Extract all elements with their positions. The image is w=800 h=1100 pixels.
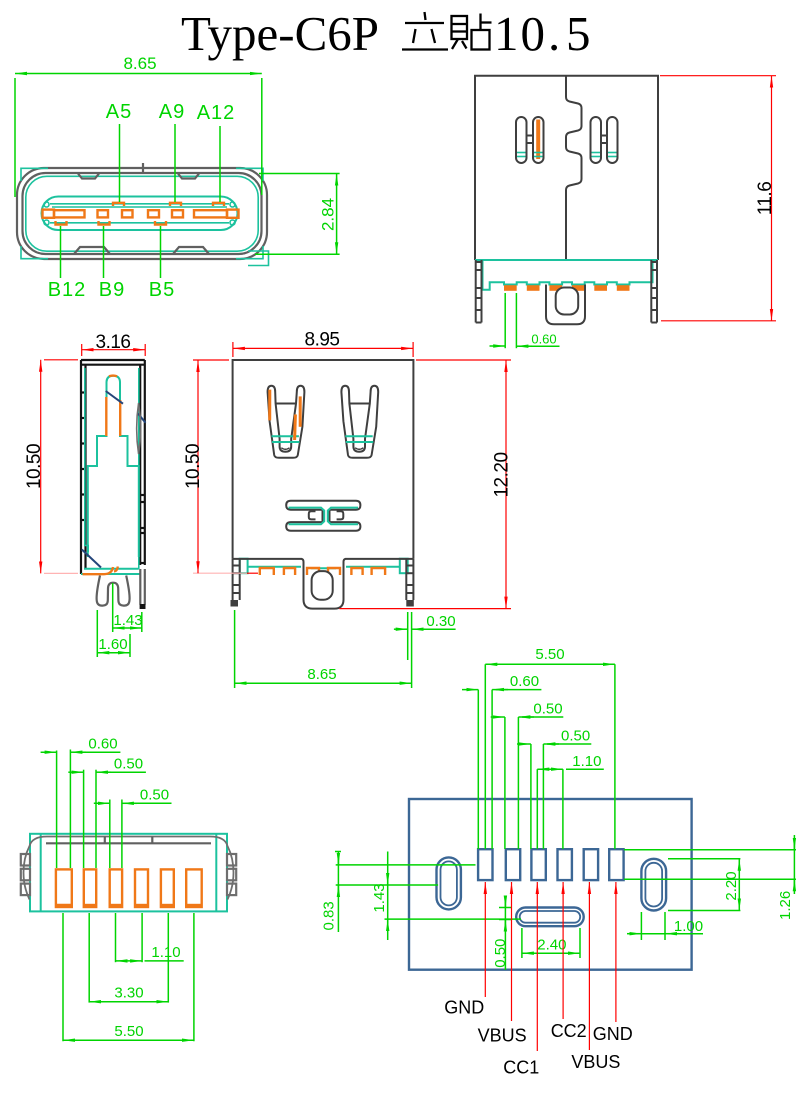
label A9 leader bbox=[174, 124, 176, 202]
dimension 0.83 bbox=[337, 852, 339, 933]
title CJK 贴 bbox=[452, 14, 492, 50]
footprint right extension lines bbox=[624, 849, 796, 851]
bottom tab B12 bbox=[56, 221, 67, 225]
footprint dim extension verticals top bbox=[477, 690, 479, 849]
svg-text:1.10: 1.10 bbox=[572, 753, 601, 770]
dimension 1.26 bbox=[793, 835, 795, 894]
dimension 10.50 side bbox=[44, 359, 78, 361]
pad leader CC1 bbox=[536, 882, 538, 1051]
dimension 0.50 bottom view first bbox=[68, 771, 83, 773]
svg-text:0.50: 0.50 bbox=[533, 700, 562, 717]
bottom view shell teal outline bbox=[30, 834, 227, 912]
dimension 1.43 footprint bbox=[387, 852, 389, 941]
svg-text:CC2: CC2 bbox=[551, 1021, 587, 1041]
front view corner mark bottom-right bbox=[236, 246, 263, 259]
bottom dim extension lines below pads bbox=[62, 913, 64, 1041]
dimension 2.84 height bbox=[259, 173, 340, 175]
front view tongue bbox=[42, 197, 238, 231]
front view top edge notch left bbox=[78, 174, 99, 179]
bottom tab B9 bbox=[99, 221, 110, 225]
elevation center tab hole bbox=[312, 571, 333, 600]
svg-text:5.50: 5.50 bbox=[535, 646, 564, 663]
rear left leg bbox=[476, 260, 482, 323]
svg-text:0.60: 0.60 bbox=[88, 736, 117, 753]
svg-text:0.60: 0.60 bbox=[510, 673, 539, 690]
svg-text:0.50: 0.50 bbox=[561, 727, 590, 744]
front view bottom edge notch left bbox=[74, 247, 110, 254]
svg-text:10.50: 10.50 bbox=[24, 444, 45, 489]
side view inner teal liner left bbox=[85, 368, 88, 552]
pin contact small 4 bbox=[172, 210, 183, 217]
rear center tab outline bbox=[546, 285, 585, 325]
svg-text:3.30: 3.30 bbox=[114, 985, 143, 1002]
rear latch hole left slot 2 bbox=[533, 117, 544, 163]
dimension 1.00 bbox=[640, 912, 642, 940]
dimension 0.30 bbox=[407, 612, 409, 660]
svg-text:10: 10 bbox=[494, 6, 547, 61]
rear latch right teal marks bbox=[592, 152, 601, 154]
rear latch hole left slot 1 bbox=[516, 117, 527, 163]
footprint board outline bbox=[409, 799, 692, 970]
dimension 0.50 footprint first bbox=[491, 716, 505, 718]
dimension 8.95 bbox=[232, 342, 234, 357]
side view left edge ticks bbox=[81, 391, 86, 393]
front view corner mark top-left bbox=[21, 168, 48, 181]
dimension 0.60 rear pad bbox=[504, 293, 506, 348]
dimension 3.16 bbox=[81, 344, 83, 356]
pin long contact right bbox=[194, 210, 227, 217]
label A12 leader bbox=[219, 126, 221, 202]
front view top edge notch right bbox=[178, 174, 199, 179]
svg-text:2.84: 2.84 bbox=[319, 198, 338, 231]
dimension 5.50 bottom view bbox=[63, 1039, 194, 1041]
top tab A12 bbox=[213, 203, 224, 206]
svg-text:.: . bbox=[548, 6, 560, 61]
svg-text:12.20: 12.20 bbox=[492, 452, 513, 497]
label A5 leader bbox=[119, 124, 121, 202]
footprint center oblong hole bbox=[516, 908, 584, 927]
rear center tab hole bbox=[556, 288, 579, 315]
pin B12/A12 long contact left bbox=[54, 210, 85, 217]
footprint left oblong hole bbox=[437, 857, 461, 909]
side view solder fork legs bbox=[97, 576, 130, 606]
svg-text:0.83: 0.83 bbox=[321, 901, 338, 930]
footprint right oblong hole bbox=[641, 859, 666, 911]
pad leader VBUS 2 bbox=[588, 882, 590, 1050]
elevation I-beam teal inset bbox=[289, 508, 359, 525]
title CJK 立 bbox=[402, 12, 448, 50]
dimension 1.10 footprint bbox=[537, 768, 563, 770]
elevation body outline bbox=[233, 360, 414, 559]
footprint left extension lines bbox=[335, 851, 341, 853]
svg-text:1.00: 1.00 bbox=[674, 918, 703, 935]
elevation I-beam cutout bbox=[286, 501, 360, 531]
svg-text:VBUS: VBUS bbox=[478, 1026, 527, 1046]
label B5 leader bbox=[160, 226, 162, 278]
side view bottom teal lines bbox=[84, 568, 139, 570]
rear view center seam bbox=[566, 76, 582, 260]
svg-text:0.30: 0.30 bbox=[426, 613, 455, 630]
rear latch hole right slot 1 bbox=[591, 117, 602, 163]
elevation orange pad brackets bbox=[260, 568, 274, 575]
svg-text:2.20: 2.20 bbox=[723, 871, 740, 900]
footprint pads bbox=[478, 849, 492, 880]
dimension 0.60 bottom view bbox=[41, 751, 57, 753]
svg-text:8.65: 8.65 bbox=[307, 666, 336, 683]
pad leader GND 2 bbox=[615, 882, 617, 1022]
side view tongue profile teal bbox=[88, 376, 139, 557]
front view bottom edge notch right bbox=[173, 247, 209, 254]
svg-text:A5: A5 bbox=[106, 101, 132, 123]
side view orange hook bottom bbox=[83, 567, 114, 574]
svg-text:5: 5 bbox=[566, 6, 591, 61]
extension line pink bottom bbox=[193, 572, 247, 574]
svg-text:B5: B5 bbox=[149, 279, 175, 301]
svg-text:GND: GND bbox=[593, 1024, 633, 1044]
elevation teal bottom line bbox=[248, 566, 301, 568]
svg-text:1.10: 1.10 bbox=[151, 944, 180, 961]
rear view body outline bbox=[475, 76, 658, 260]
front view shell inner teal liner bbox=[26, 176, 258, 251]
bottom view right cap lugs bbox=[227, 854, 236, 866]
pad leader GND 1 bbox=[484, 882, 486, 997]
svg-text:8.95: 8.95 bbox=[305, 330, 340, 351]
bottom tab B5 bbox=[155, 221, 166, 225]
dimension 2.20 bbox=[738, 859, 740, 911]
elevation shell bottom edge and center tab outline bbox=[233, 559, 414, 609]
elevation left leg bbox=[233, 559, 240, 600]
dimension 1.43 fork bbox=[112, 583, 114, 632]
svg-text:Type-C6P: Type-C6P bbox=[181, 6, 379, 61]
pin contact small 2 bbox=[122, 210, 133, 217]
dimension 12.20 bbox=[416, 359, 511, 361]
svg-text:0.50: 0.50 bbox=[492, 939, 509, 968]
top tab A5 bbox=[113, 203, 124, 206]
dimension 1.10 bbox=[116, 960, 143, 962]
side view right edge ticks bbox=[140, 494, 145, 496]
bottom view left cap lugs bbox=[21, 854, 30, 866]
label B12 leader bbox=[60, 226, 62, 278]
side view body outline bbox=[81, 360, 145, 574]
elevation teal corner blocks bbox=[240, 559, 248, 574]
side view inner teal liner right bbox=[138, 368, 140, 569]
svg-text:A9: A9 bbox=[159, 101, 185, 123]
front view outer shell bbox=[17, 168, 267, 259]
bottom view solder pads bbox=[56, 869, 72, 907]
svg-text:1.60: 1.60 bbox=[98, 636, 127, 653]
svg-text:1.26: 1.26 bbox=[777, 891, 794, 920]
svg-text:3.16: 3.16 bbox=[96, 332, 131, 353]
rear latch left crossbar bbox=[527, 135, 534, 137]
dimension 0.50 footprint second bbox=[517, 743, 531, 745]
elevation right leg bbox=[406, 559, 413, 600]
svg-text:B12: B12 bbox=[48, 279, 87, 301]
rear latch left orange contact bbox=[536, 120, 540, 160]
rear right leg bbox=[651, 260, 657, 323]
svg-text:GND: GND bbox=[444, 997, 484, 1017]
label B9 leader bbox=[103, 226, 105, 278]
svg-text:1.43: 1.43 bbox=[371, 883, 388, 912]
svg-text:5.50: 5.50 bbox=[114, 1023, 143, 1040]
elevation I-beam side hooks bbox=[309, 511, 316, 519]
svg-text:CC1: CC1 bbox=[503, 1058, 539, 1078]
svg-text:10.50: 10.50 bbox=[183, 444, 204, 489]
dimension 2.40 bbox=[521, 928, 523, 958]
svg-text:2.40: 2.40 bbox=[537, 937, 566, 954]
dimension 0.60 footprint bbox=[462, 689, 478, 691]
front view corner mark top-right bbox=[236, 168, 263, 181]
dimension 11.6 overall height bbox=[660, 75, 776, 77]
svg-text:0.50: 0.50 bbox=[114, 756, 143, 773]
svg-text:0.60: 0.60 bbox=[531, 332, 556, 347]
rear solder pads orange bbox=[504, 285, 517, 291]
elevation latch fork cutout right bbox=[341, 386, 378, 458]
svg-text:8.65: 8.65 bbox=[123, 54, 156, 73]
dimension 0.50 footprint vertical bbox=[504, 898, 506, 970]
side view orange contact tip bbox=[109, 374, 117, 377]
bottom view top band and caps gray bbox=[24, 837, 234, 900]
pin row: right shield tab bbox=[227, 210, 239, 218]
pin row: left shield tab bbox=[43, 210, 55, 218]
dimension 0.50 bottom view second bbox=[94, 802, 110, 804]
front view corner mark bottom-left bbox=[21, 246, 48, 259]
pad leader CC2 bbox=[562, 882, 564, 1019]
pad leader VBUS 1 bbox=[511, 882, 513, 1021]
rear latch left teal marks bbox=[517, 152, 526, 154]
elevation latch fork cutout left bbox=[268, 386, 305, 458]
svg-text:11.6: 11.6 bbox=[755, 182, 776, 216]
dimension 5.50 footprint bbox=[485, 663, 615, 665]
dimension 10.50 elevation bbox=[193, 359, 229, 361]
bottom dim extension lines into pads bbox=[56, 751, 58, 869]
pin contact small 1 bbox=[98, 210, 109, 217]
svg-text:B9: B9 bbox=[99, 279, 125, 301]
rear shell comb outline teal bbox=[483, 260, 653, 290]
dimension 8.65 elevation bottom bbox=[234, 610, 236, 688]
dimension 1.60 fork bbox=[96, 610, 98, 657]
rear shell bottom edge teal bbox=[475, 259, 658, 261]
svg-text:1.43: 1.43 bbox=[113, 612, 142, 629]
pin contact small 3 bbox=[148, 210, 159, 217]
side view latch leaf right bbox=[137, 403, 141, 454]
svg-text:A12: A12 bbox=[197, 102, 236, 124]
top tab A9 bbox=[170, 203, 181, 206]
rear latch hole right slot 2 bbox=[607, 117, 618, 163]
svg-text:0.50: 0.50 bbox=[140, 787, 169, 804]
rear latch right crossbar bbox=[601, 135, 607, 137]
side view rear thin leg bbox=[140, 569, 145, 605]
side view navy spring lines bbox=[106, 391, 123, 404]
dimension 3.30 bbox=[89, 1001, 168, 1003]
svg-text:VBUS: VBUS bbox=[571, 1052, 620, 1072]
dimension 8.65 width of shell bbox=[14, 78, 16, 197]
front view top center tick bbox=[142, 163, 144, 172]
